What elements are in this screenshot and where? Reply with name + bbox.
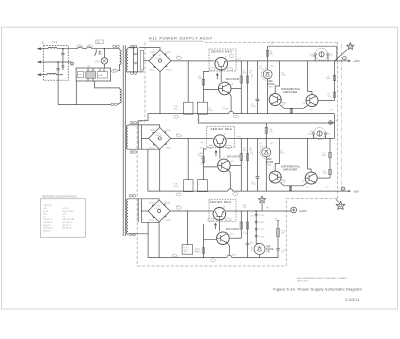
boundary top — [205, 41, 338, 43]
T1 sec3 pin ovals bottom — [129, 233, 132, 236]
svg-text:+5V: +5V — [200, 158, 204, 160]
GD oval — [174, 115, 179, 118]
filter cap C2B box — [197, 180, 207, 192]
+rail ch3 — [170, 210, 291, 212]
svg-text:LINE: LINE — [97, 43, 101, 45]
lamp to relay box — [103, 64, 105, 68]
sec1 bottom wire — [128, 71, 144, 73]
top loop wire R4 ch2 — [198, 115, 334, 139]
inductor L1 — [48, 47, 57, 48]
T1 sec1 pin ovals bottom — [130, 72, 133, 75]
resistor R17 — [329, 152, 331, 157]
breaker S1 — [86, 47, 91, 49]
wire Q4 base — [319, 100, 335, 102]
feedback arrow glyph ch3 — [214, 223, 216, 229]
dropper ch3 b — [247, 211, 249, 258]
wire line3 cont — [56, 74, 63, 76]
svg-text:FL1: FL1 — [52, 40, 58, 44]
svg-text:R10-17,R20: R10-17,R20 — [62, 211, 74, 213]
series reg dashed box ch3 — [209, 199, 236, 221]
thermistor RT1 box — [140, 50, 143, 70]
GD oval ch2 — [176, 193, 181, 196]
svg-text:CR18: CR18 — [259, 236, 265, 238]
wire Q6 to dropper — [231, 164, 242, 166]
svg-text:230V: 230V — [98, 54, 104, 56]
transistor Q2 driver — [218, 82, 231, 95]
pin ovals bottom — [111, 103, 114, 106]
T1 sec1 pin ovals top — [130, 45, 133, 48]
emitter tie ch2 — [280, 182, 307, 191]
wire sec3 to ch3 bottom rail — [147, 222, 149, 257]
star 3 — [259, 196, 266, 203]
svg-text:Q1-15: Q1-15 — [62, 208, 69, 210]
transistor Q7 — [269, 171, 282, 183]
svg-text:R5A: R5A — [200, 146, 205, 149]
svg-text:AMPLIFIER: AMPLIFIER — [283, 90, 297, 94]
P oval ch2 — [233, 193, 238, 196]
bridge2 left corner wire — [141, 137, 148, 139]
svg-text:Figure 5-10. Power Supply Sch: Figure 5-10. Power Supply Schematic Diag… — [273, 286, 362, 291]
left column wire ch1 — [203, 72, 218, 103]
svg-text:CR15: CR15 — [259, 215, 265, 217]
T1 sec2 pin ovals — [130, 121, 133, 124]
filter cap drop 1 — [187, 61, 189, 102]
svg-text:CR3D: CR3D — [165, 220, 171, 222]
boundary left lower — [136, 122, 138, 267]
wire Q10 to dropper — [230, 237, 242, 239]
sec2 column wires — [138, 125, 141, 149]
emitter tie — [280, 105, 308, 114]
resistor R22 — [277, 228, 280, 236]
svg-text:CR2B: CR2B — [165, 130, 171, 132]
star 1 — [347, 43, 354, 50]
svg-text:DRIVER: DRIVER — [226, 227, 240, 231]
svg-text:J1: J1 — [41, 41, 45, 45]
svg-text:GOLD: GOLD — [155, 135, 162, 137]
output arrow -18V — [348, 190, 351, 192]
relay coil — [86, 71, 96, 78]
extra component value labels — [176, 56, 339, 257]
relay pins — [88, 68, 104, 81]
oval label CR3 on rail — [176, 206, 181, 209]
T1 sec1 winding — [126, 48, 127, 73]
T1 sec2 pin ovals bottom — [130, 151, 133, 154]
sec3 bottom wires — [128, 222, 159, 234]
zener diode marks — [255, 214, 258, 238]
oval tags below Q1 — [209, 68, 215, 71]
base drop Q1->Q2 — [220, 71, 222, 82]
divider line ch3 — [277, 221, 279, 258]
svg-text:F 1-8: F 1-8 — [43, 211, 49, 213]
dropper R12 — [240, 138, 242, 191]
svg-text:GOLD: GOLD — [155, 208, 162, 210]
inter-channel drop — [333, 114, 335, 139]
dropper R2 — [240, 61, 242, 114]
svg-text:+100V: +100V — [299, 209, 307, 213]
transistor Q8 — [305, 172, 318, 184]
svg-text:1 LINE: 1 LINE — [222, 109, 229, 111]
pot R9 ch1 — [310, 48, 334, 60]
capacitor C between line1-line2 — [61, 49, 64, 62]
resistor R4 — [266, 50, 268, 56]
voltage selector strokes — [95, 49, 97, 56]
T1 sec2 winding — [126, 125, 128, 149]
dropper to diff amp — [275, 61, 279, 94]
dropper to Q8 collector — [308, 138, 312, 171]
cap C12 — [276, 249, 280, 250]
relay K1 box — [76, 68, 111, 81]
sec1 column wires — [134, 48, 138, 72]
svg-text:740: 740 — [266, 251, 271, 254]
series reg dashed box ch1 — [209, 49, 236, 71]
svg-text:CR3A: CR3A — [149, 202, 155, 205]
oval tag A2 — [229, 55, 234, 58]
wire RT1 to bridge1 left corner — [144, 60, 149, 62]
svg-text:A1 VR1-4: A1 VR1-4 — [62, 221, 72, 224]
svg-text:REFERENCE DESIGNATIONS: REFERENCE DESIGNATIONS — [42, 196, 77, 199]
oval tags below Q5 — [208, 145, 214, 148]
wire to selector — [92, 48, 120, 50]
rail hop — [229, 111, 234, 113]
svg-text:28V: 28V — [274, 219, 278, 221]
dropper C2 — [256, 61, 260, 114]
svg-text:S4,CR1-8: S4,CR1-8 — [43, 228, 53, 230]
boundary jog — [286, 198, 337, 200]
svg-text:1969 8 1971: 1969 8 1971 — [297, 280, 309, 282]
dropper R3 — [247, 61, 249, 114]
oval GD top left — [131, 46, 135, 49]
dropper ch3 a — [240, 211, 242, 238]
T1 sec3 pin ovals top — [129, 194, 132, 197]
star2 lead — [336, 200, 338, 203]
-rail ch3 — [148, 257, 278, 259]
resistor R18 — [329, 169, 331, 174]
wire relay to primary tap — [95, 81, 120, 88]
svg-text:CR1B: CR1B — [165, 52, 171, 54]
base drop Q5->Q6 — [219, 148, 221, 159]
ref diode line ch2 — [265, 138, 267, 191]
zener chain — [256, 211, 259, 244]
wire Q2 to dropper — [232, 88, 242, 90]
left column wire ch3 — [203, 224, 216, 258]
svg-text:VR1-VR5,A5: VR1-VR5,A5 — [62, 218, 75, 221]
star3 stub — [261, 203, 263, 211]
resistor R6 — [290, 109, 292, 113]
T1 primary winding upper — [120, 49, 121, 66]
lamp DS1 — [101, 58, 108, 65]
transistor Q10 driver — [217, 232, 230, 245]
rail hop ch3 — [227, 255, 232, 257]
connector J1 arrow pin 3 — [37, 73, 41, 76]
svg-text:DS1: DS1 — [95, 61, 100, 64]
bridge1 minus drop — [159, 72, 161, 114]
output arrow +18V — [348, 60, 351, 62]
boundary bottom — [137, 265, 286, 267]
svg-text:SERIES REG: SERIES REG — [210, 127, 232, 131]
sec2 to bridge2: top wire — [128, 125, 160, 128]
svg-text:DRIVER: DRIVER — [226, 77, 240, 81]
svg-text:CHR QR: CHR QR — [43, 205, 52, 207]
pot stubs ch2 — [313, 135, 325, 139]
svg-text:CR1D: CR1D — [166, 70, 172, 72]
primary return wire — [58, 104, 111, 106]
wire line3 — [38, 74, 47, 76]
bridge3 left corner wire — [141, 210, 148, 212]
inductor L2 — [47, 73, 56, 74]
COM terminal — [329, 121, 333, 125]
svg-text:CR2D: CR2D — [165, 147, 171, 149]
filter cap C1A box — [184, 102, 194, 114]
driver emitter drop ch3 — [228, 243, 230, 255]
star1 lead — [335, 50, 347, 61]
bridge rectifier CR3 (diamond) — [148, 200, 171, 222]
transistor Q6 driver — [218, 159, 231, 172]
svg-text:R6C: R6C — [310, 131, 315, 133]
svg-text:AMPLIFIER: AMPLIFIER — [283, 167, 297, 171]
dropper to Q4 collector — [308, 61, 313, 94]
reference designations table box — [40, 199, 85, 237]
svg-text:CR3C: CR3C — [148, 220, 154, 222]
svg-text:CR1A: CR1A — [150, 51, 156, 54]
svg-text:+18V: +18V — [353, 59, 360, 63]
bridge rectifier CR2 (diamond) — [149, 127, 172, 149]
top loop wire R4 ch1 — [268, 46, 337, 61]
ref diode VR1 — [261, 68, 272, 80]
P oval — [234, 115, 239, 118]
T1 sec3 winding — [127, 199, 128, 234]
resistor R11 — [202, 157, 205, 163]
filter cap C2A box — [184, 180, 194, 192]
series reg dashed box ch2 — [207, 127, 235, 148]
dropper C2 ch2 — [256, 138, 260, 191]
wire Q8 base — [318, 177, 330, 179]
resistor R8 — [333, 92, 335, 97]
svg-text:CR3B: CR3B — [164, 203, 170, 205]
wire sec2 bottom to ch2 bottom rail — [147, 149, 149, 191]
sec1 to bridge1 wiring: top wire — [128, 48, 160, 50]
output terminal oval ch1 — [343, 57, 347, 60]
transistor Q3 — [269, 94, 282, 106]
svg-text:5-10/5-14: 5-10/5-14 — [346, 298, 360, 302]
T1 core — [123, 45, 125, 236]
sec2 stub up right — [138, 114, 148, 125]
dropper to diff amp ch2 — [275, 138, 279, 171]
svg-text:CR17: CR17 — [259, 229, 265, 231]
capacitor C2 stub — [62, 62, 65, 70]
fuse F1 — [78, 47, 83, 49]
driver emitter drop ch2 — [229, 170, 231, 189]
svg-text:-18V: -18V — [353, 189, 359, 193]
svg-text:R6B: R6B — [312, 56, 317, 58]
resistor R16 — [289, 186, 291, 190]
label box S1/LINE — [96, 40, 103, 44]
transistor Q4 — [306, 95, 319, 107]
transistor Q5 — [214, 135, 227, 148]
P oval ch3 — [211, 259, 216, 262]
transistor Q9 — [213, 208, 226, 221]
connector J1 arrow pin 1 — [37, 47, 41, 50]
star 2 — [336, 202, 344, 210]
-rail ch2 / output — [148, 190, 349, 192]
bridge rectifier CR1 (diamond) — [149, 50, 172, 72]
T1 primary top pin ovals — [113, 45, 116, 48]
relay contact box A — [77, 72, 83, 78]
boundary right lower — [285, 199, 287, 266]
oval label CR2 on rail — [176, 134, 181, 137]
cap marks on dropper b — [246, 244, 250, 245]
oval label T1 right of relay — [111, 70, 116, 73]
left column wire ch2 — [203, 149, 217, 180]
connector J1 arrow pin 2 — [37, 61, 41, 64]
svg-text:A4,Q4-7: A4,Q4-7 — [43, 229, 52, 232]
boundary left upper — [137, 42, 145, 121]
svg-text:K1,Q1-12: K1,Q1-12 — [43, 219, 53, 221]
sec3 to bridge3: top wire — [128, 199, 159, 200]
resistor R4 ch2 — [265, 127, 267, 133]
ref diode VR3 — [252, 244, 265, 255]
T1 primary tap label — [113, 69, 118, 72]
feedback arrow glyph — [216, 74, 218, 80]
feedback divider ch1 — [333, 61, 335, 101]
foldout cut line — [340, 44, 342, 191]
+rail ch1 — [171, 60, 349, 62]
svg-text:CR16: CR16 — [259, 222, 265, 224]
svg-text:SERIES REG: SERIES REG — [210, 200, 232, 204]
oval tags beside Q9 — [208, 218, 214, 221]
feedback arrow glyph ch2 — [215, 151, 217, 157]
resistor R1 — [202, 79, 205, 85]
sec1 caps — [134, 53, 138, 63]
svg-text:A1A1: A1A1 — [99, 74, 104, 77]
pot stubs — [315, 56, 328, 61]
wire — [83, 48, 87, 50]
svg-text:TRK: TRK — [200, 153, 205, 155]
svg-text:DRIVER: DRIVER — [227, 154, 241, 158]
filter cap drop ch3 — [186, 211, 188, 245]
resistor R7 — [333, 75, 335, 80]
filter cap C13 box — [182, 245, 193, 255]
sec3 column wires — [138, 199, 141, 223]
wire line2 — [38, 61, 71, 63]
svg-text:GOLD: GOLD — [155, 58, 162, 60]
base drop Q9->Q10 — [218, 221, 220, 232]
boundary right upper — [337, 42, 339, 198]
-rail ch1 — [148, 113, 334, 115]
transistor Q1 — [215, 57, 228, 70]
sec2 bottom wire — [128, 148, 160, 151]
+rail ch2 — [171, 137, 335, 139]
ref diode VR2 — [260, 146, 271, 158]
relay module A1A1 — [97, 72, 107, 78]
feedback divider ch2 — [329, 138, 331, 178]
lamp DS1 drop — [103, 49, 105, 58]
svg-text:A2 VR5-8: A2 VR5-8 — [62, 227, 72, 230]
svg-text:CR2A: CR2A — [149, 129, 155, 132]
oval label CR1 on rail — [176, 57, 181, 60]
T1 primary winding lower — [117, 88, 121, 105]
svg-text:A4,Q1-7: A4,Q1-7 — [43, 224, 52, 227]
filter cap drop ch2 — [187, 138, 189, 179]
wire left side of relay down — [75, 81, 77, 105]
svg-text:S4,CR1-4: S4,CR1-4 — [43, 222, 53, 224]
GD oval ch3 — [172, 254, 177, 257]
wire line1 — [38, 48, 48, 50]
pot R19 ch2 — [308, 128, 332, 140]
output terminal oval ch2 — [341, 187, 345, 190]
svg-text:SERIES REG: SERIES REG — [211, 49, 233, 53]
dropper R13 — [247, 138, 249, 191]
driver emitter drop — [229, 93, 231, 111]
filter cap C1B box — [197, 102, 207, 114]
ref3 stub to rail — [259, 255, 261, 258]
line filter FL1 dashed box — [44, 46, 69, 81]
bridge2 minus drop — [159, 150, 161, 191]
wire line1 cont — [57, 48, 77, 50]
capacitor C on left drop — [57, 62, 60, 105]
svg-text:A11 POWER SUPPLY ASSY: A11 POWER SUPPLY ASSY — [149, 36, 213, 41]
resistor R21 — [202, 248, 205, 254]
ground via circle — [71, 62, 74, 65]
svg-text:CR1C: CR1C — [149, 70, 155, 72]
output terminal +100V — [291, 207, 297, 213]
rail hop ch2 — [228, 189, 233, 191]
bridge3 minus drop — [158, 222, 160, 257]
junction dots — [62, 48, 63, 49]
ref diode line — [267, 61, 269, 114]
svg-text:A2 R6-19: A2 R6-19 — [62, 224, 72, 227]
